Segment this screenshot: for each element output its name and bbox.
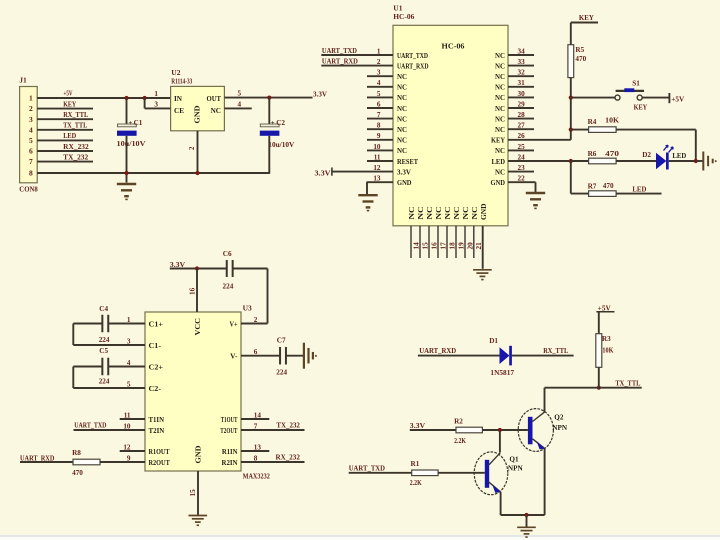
- svg-text:GND: GND: [195, 446, 203, 464]
- ground below Q1 Q2: [517, 527, 536, 538]
- svg-text:NC: NC: [408, 207, 416, 220]
- wire to R7: [571, 193, 589, 195]
- U1 right pin name NC: [495, 105, 505, 113]
- U1 left pin 7 number: [377, 111, 381, 119]
- wire T2OUT pin7 TX_232: [241, 429, 305, 431]
- svg-text:TX_232: TX_232: [63, 153, 88, 161]
- R1 designator: [411, 460, 420, 468]
- wire U1 pin 11 stub: [367, 160, 393, 162]
- U1 right pin 34 number: [518, 47, 526, 55]
- net label UART_RXD at U3: [20, 454, 54, 462]
- U2 pin name GND: [194, 106, 202, 124]
- U1 bottom pin name GND: [480, 204, 488, 221]
- C4 value 224: [99, 336, 110, 344]
- wire U1 pin 31 stub: [508, 86, 534, 88]
- net label LED: [63, 132, 76, 140]
- U1 left pin 3 number: [377, 69, 381, 77]
- D2 value LED: [672, 152, 686, 160]
- U1 right pin 27 number: [518, 122, 526, 130]
- U1 right pin 29 number: [518, 100, 526, 108]
- svg-text:KEY: KEY: [491, 137, 506, 145]
- wire U1 bottom pin 14 stub: [410, 226, 412, 258]
- svg-text:+5V: +5V: [671, 96, 684, 104]
- wire C2+ left b: [109, 366, 145, 368]
- U1 right pin name NC: [495, 147, 505, 155]
- C7 value 224: [276, 368, 287, 376]
- U2 pin name OUT: [207, 95, 222, 103]
- wire R2OUT to R8: [20, 461, 73, 463]
- svg-text:18: 18: [448, 242, 456, 250]
- resistor R5: [568, 45, 574, 78]
- svg-text:+: +: [271, 119, 275, 127]
- R1 value 2.2K: [410, 479, 422, 487]
- U1 right pin 28 number: [518, 111, 526, 119]
- svg-text:TX_TTL: TX_TTL: [63, 122, 87, 130]
- svg-text:NC: NC: [417, 207, 425, 220]
- U3 left pin 3 number: [127, 337, 131, 345]
- svg-text:NC: NC: [471, 207, 479, 220]
- S1 designator: [632, 79, 640, 87]
- wire stub J1 pin 2: [37, 108, 93, 110]
- U2 pin 4 number: [238, 101, 242, 109]
- J1 pin 6 number: [29, 147, 33, 156]
- voltage regulator U2 body: [171, 86, 225, 130]
- net label RX_TTL: [63, 111, 88, 119]
- svg-text:R3: R3: [602, 335, 611, 343]
- wire C1+ left b: [109, 323, 145, 325]
- wire R7 to LED label: [616, 193, 661, 195]
- svg-text:C4: C4: [99, 305, 108, 313]
- svg-text:2.2K: 2.2K: [454, 437, 466, 445]
- U1 right pin name NC: [495, 62, 505, 70]
- svg-text:NC: NC: [397, 73, 407, 81]
- wire key node to R4: [571, 129, 589, 131]
- C2 value 10u/10V: [268, 141, 295, 149]
- U1 bottom pin 21 number: [475, 242, 483, 250]
- wire Q2 emitter vertical: [544, 449, 546, 515]
- U3 left pin name T1IN: [149, 416, 165, 424]
- J1 designator: [19, 76, 27, 85]
- wire U2 pin3 stub: [145, 107, 171, 109]
- svg-text:3: 3: [29, 115, 33, 124]
- svg-text:NC: NC: [462, 207, 470, 220]
- svg-text:19: 19: [457, 242, 465, 250]
- C4 designator: [99, 305, 108, 313]
- wire S1 to power: [642, 97, 669, 99]
- wire U1 bottom GND pin: [482, 226, 484, 269]
- svg-text:3.3V: 3.3V: [410, 421, 426, 430]
- svg-text:16: 16: [430, 242, 438, 250]
- wire U1 bottom pin 21 stub: [473, 226, 475, 258]
- svg-text:NC: NC: [453, 207, 461, 220]
- U1 bottom pin name NC 16: [426, 207, 434, 220]
- wire U2 OUT 3.3V rail: [224, 97, 312, 99]
- capacitor C1 plates: [117, 124, 137, 136]
- Q1 designator: [509, 456, 519, 464]
- svg-text:HC-06: HC-06: [393, 13, 414, 21]
- R4 designator: [588, 118, 597, 126]
- svg-text:NC: NC: [495, 147, 505, 155]
- wire U2 GND lead: [197, 131, 199, 173]
- svg-text:C2-: C2-: [149, 385, 162, 393]
- D1 designator: [489, 337, 498, 345]
- svg-text:C1+: C1+: [149, 320, 164, 328]
- U2 pin 3 number: [154, 101, 158, 109]
- svg-text:C1: C1: [134, 119, 143, 127]
- U1 right pin name NC: [495, 126, 505, 134]
- svg-text:470: 470: [605, 150, 619, 158]
- U3 left pin name C1+: [149, 320, 164, 328]
- Q2 designator: [554, 413, 564, 421]
- U1 bottom pin 19 number: [457, 242, 465, 250]
- svg-text:GND: GND: [397, 179, 412, 187]
- svg-text:TX_232: TX_232: [276, 422, 300, 430]
- wire C4 loop vertical: [72, 324, 74, 346]
- U3 left pin name T2IN: [149, 427, 166, 435]
- svg-text:R1: R1: [411, 460, 420, 468]
- svg-text:LED: LED: [672, 152, 686, 160]
- wire Q1 emitter vertical: [500, 492, 502, 515]
- U1 left pin name NC: [397, 126, 407, 134]
- wire C5 loop vertical: [72, 367, 74, 389]
- resistor R1: [412, 470, 438, 476]
- wire U2 CE branch vertical: [144, 98, 146, 108]
- svg-text:KEY: KEY: [63, 100, 77, 108]
- svg-text:+: +: [128, 119, 132, 127]
- svg-text:CON8: CON8: [19, 185, 38, 194]
- connector J1 CON8: [20, 87, 38, 183]
- svg-text:U2: U2: [171, 68, 180, 77]
- resistor R8: [73, 459, 100, 465]
- U1 bottom pin name NC 20: [462, 207, 470, 220]
- U1 left pin 9 number: [377, 132, 381, 140]
- U1 right pin 22 number: [518, 175, 526, 183]
- resistor R3: [596, 334, 602, 368]
- U1 right pin 33 number: [518, 58, 526, 66]
- wire U1 bottom pin 16 stub: [428, 226, 430, 258]
- junction U2 input node: [143, 96, 147, 100]
- svg-text:S1: S1: [632, 79, 640, 87]
- junction 3.3V at C2: [267, 96, 271, 100]
- net label LED at R7: [632, 184, 647, 193]
- wire U1 pin1 UART_TXD: [321, 54, 393, 56]
- wire stub J1 pin 5: [37, 139, 93, 141]
- svg-text:D1: D1: [489, 337, 498, 345]
- wire stub J1 pin 7: [37, 161, 93, 163]
- svg-text:V-: V-: [230, 353, 238, 361]
- svg-text:1: 1: [29, 94, 33, 103]
- svg-text:C5: C5: [99, 347, 108, 355]
- C7 designator: [277, 337, 286, 345]
- U1 left pin name NC: [397, 105, 407, 113]
- svg-text:T1IN: T1IN: [149, 416, 165, 424]
- U2 pin name NC: [211, 107, 221, 115]
- svg-text:NC: NC: [495, 52, 505, 60]
- svg-text:15: 15: [421, 242, 429, 250]
- U3 left pin 1 number: [127, 316, 131, 324]
- ground below U3: [189, 516, 208, 527]
- svg-text:17: 17: [439, 242, 447, 250]
- U2 pin 2 number: [189, 146, 196, 150]
- wire U1 pin 30 stub: [508, 96, 534, 98]
- port bar 3.3V pin12: [331, 168, 333, 176]
- R4 value 10K: [605, 117, 619, 125]
- net label UART_RXD at D1: [419, 347, 456, 355]
- svg-text:NC: NC: [495, 84, 505, 92]
- wire stub J1 pin 3: [37, 118, 93, 120]
- U1 left pin 2 number: [377, 58, 381, 66]
- wire +5V to R3: [598, 312, 600, 334]
- svg-text:C7: C7: [277, 337, 286, 345]
- wire U1 pin 27 stub: [508, 128, 534, 130]
- wire T1IN pin11 stub: [120, 418, 145, 420]
- U2 designator: [171, 68, 180, 77]
- wire U1 pin13 gnd vertical: [366, 182, 368, 194]
- svg-text:NC: NC: [397, 115, 407, 123]
- U1 bottom pin 14 number: [412, 242, 420, 250]
- junction C1 at GND bus: [124, 171, 128, 175]
- svg-text:V+: V+: [230, 320, 238, 328]
- wire U1 pin 8 stub: [367, 128, 393, 130]
- U1 bottom pin 18 number: [448, 242, 456, 250]
- wire R1IN pin13 stub: [241, 450, 269, 452]
- U3 left pin name R1OUT: [149, 448, 170, 456]
- net label RX_232: [63, 143, 89, 151]
- switch S1: [615, 88, 644, 100]
- junction key node R4: [569, 128, 573, 132]
- ground right of D2: [703, 152, 716, 171]
- svg-text:NC: NC: [397, 147, 407, 155]
- svg-text:NC: NC: [426, 207, 434, 220]
- svg-text:LED: LED: [492, 158, 506, 166]
- U3 right pin name R1IN: [222, 448, 238, 456]
- U1 right pin name NC: [495, 73, 505, 81]
- U3 left pin name C2+: [149, 363, 164, 371]
- R7 designator: [588, 182, 597, 190]
- J1 pin 1 number: [29, 94, 33, 103]
- CON8 value: [19, 185, 38, 194]
- ground at U1 pin13: [358, 195, 377, 211]
- U1 bottom pin 15 number: [421, 242, 429, 250]
- U1 right pin 32 number: [518, 69, 526, 77]
- R2 value 2.2K: [454, 437, 466, 445]
- wire C6 to corner: [233, 268, 268, 270]
- net label UART_TXD at U3: [74, 422, 106, 430]
- wire R8 to R2OUT pin9: [100, 461, 145, 463]
- ground at U1 bottom GND pin: [473, 270, 492, 281]
- svg-text:NC: NC: [495, 126, 505, 134]
- C1 plus sign: [128, 119, 132, 127]
- U3 left pin 12 number: [123, 443, 131, 451]
- wire U1 pin 10 stub: [367, 149, 393, 151]
- U1 left pin 12 number: [373, 164, 381, 172]
- svg-text:UART_TXD: UART_TXD: [322, 47, 357, 55]
- wire corner down to V+: [267, 269, 269, 324]
- svg-text:NC: NC: [397, 126, 407, 134]
- svg-text:UART_TXD: UART_TXD: [349, 464, 385, 472]
- D2 designator: [642, 151, 651, 159]
- svg-text:5: 5: [29, 136, 33, 145]
- C5 value 224: [99, 377, 110, 385]
- junction LED node: [569, 159, 573, 163]
- U1 left pin name NC: [397, 73, 407, 81]
- wire C1+ left a: [73, 323, 102, 325]
- svg-text:RX_TTL: RX_TTL: [543, 347, 568, 355]
- wire U1 pin 25 stub: [508, 149, 534, 151]
- U3 left pin 11 number: [124, 411, 131, 419]
- U3 right pin name R2IN: [222, 459, 239, 467]
- transistor Q2: [518, 409, 553, 452]
- svg-text:10K: 10K: [605, 117, 619, 125]
- J1 pin 3 number: [29, 115, 33, 124]
- wire C2+ left a: [73, 366, 102, 368]
- svg-text:UART_RXD: UART_RXD: [419, 347, 456, 355]
- C1 value 10u/10V: [117, 140, 147, 148]
- U3 pin name GND: [195, 446, 203, 464]
- svg-text:KEY: KEY: [634, 103, 648, 112]
- wire UART_RXD to D1: [418, 355, 500, 357]
- net label UART_TXD at U1 pin1: [322, 47, 357, 55]
- U1 left pin 8 number: [377, 122, 381, 130]
- svg-text:15: 15: [189, 489, 197, 497]
- U3 pin 16 number: [189, 287, 197, 295]
- U1 left pin name RESET: [397, 158, 418, 166]
- wire KEY to R5: [570, 23, 572, 45]
- svg-text:NC: NC: [397, 84, 407, 92]
- svg-text:4: 4: [238, 101, 242, 109]
- C2 plus sign: [271, 119, 275, 127]
- svg-text:14: 14: [412, 242, 420, 250]
- U3 right pin name T1OUT: [221, 416, 238, 424]
- wire U1 pin 4 stub: [367, 86, 393, 88]
- U1 bottom pin name NC 21: [471, 207, 479, 220]
- ground below C1: [117, 184, 136, 200]
- U1 left pin 13 number: [373, 175, 381, 183]
- svg-text:R5: R5: [575, 46, 584, 54]
- svg-text:10K: 10K: [602, 346, 613, 354]
- svg-text:LED: LED: [632, 184, 647, 193]
- U1 left pin name NC: [397, 84, 407, 92]
- U1 left pin name UART_RXD: [397, 62, 429, 70]
- wire T2IN pin10 UART_TXD: [74, 429, 146, 431]
- svg-text:RX_232: RX_232: [276, 454, 301, 462]
- wire C7 to ground: [287, 355, 304, 357]
- svg-text:NC: NC: [495, 115, 505, 123]
- wire UART_TXD to R1: [349, 472, 412, 474]
- R2 designator: [454, 417, 463, 425]
- svg-text:224: 224: [223, 283, 234, 291]
- wire U1 pin 28 stub: [508, 118, 534, 120]
- svg-text:GND: GND: [480, 204, 488, 221]
- wire U1 pin 6 stub: [367, 107, 393, 109]
- svg-text:R4: R4: [588, 118, 597, 126]
- U1 bottom pin name NC 18: [444, 207, 452, 220]
- svg-text:Q2: Q2: [554, 413, 564, 421]
- bluetooth module U1 body: [393, 25, 508, 226]
- svg-text:UART_RXD: UART_RXD: [322, 58, 358, 66]
- wire U1 pin 3 stub: [367, 75, 393, 77]
- svg-text:TX_TTL: TX_TTL: [615, 379, 640, 387]
- wire led node down to R7: [570, 161, 572, 194]
- svg-text:KEY: KEY: [579, 13, 595, 22]
- svg-text:224: 224: [276, 368, 287, 376]
- U3 pin 15 number: [189, 489, 197, 497]
- wire R5 to key node: [570, 78, 572, 140]
- wire 3.3V to C6: [170, 268, 226, 270]
- U1 right pin 26 number: [518, 132, 526, 140]
- U3 right pin name T2OUT: [220, 427, 237, 435]
- J1 pin 4 number: [29, 125, 33, 134]
- U3 left pin name C2-: [149, 385, 162, 393]
- diode D2 LED: [656, 145, 673, 169]
- wire V- pin6 stub: [241, 355, 280, 357]
- wire U1 pin12 3.3V: [332, 171, 393, 173]
- U1 bottom pin name NC 17: [435, 207, 443, 220]
- svg-text:470: 470: [603, 182, 614, 190]
- U1 right pin 23 number: [518, 164, 526, 172]
- R6 designator: [588, 150, 597, 158]
- wire KEY label stub: [571, 22, 598, 24]
- wire D2 to gnd node: [669, 160, 696, 162]
- U1 value HC-06 above box: [393, 13, 414, 21]
- wire C2- pin5: [73, 387, 145, 389]
- U3 left pin 5 number: [127, 380, 131, 388]
- C6 designator: [223, 250, 232, 258]
- U1 right pin name KEY: [491, 137, 506, 145]
- svg-text:T1OUT: T1OUT: [221, 416, 238, 424]
- junction U2 GND at bus: [195, 171, 199, 175]
- svg-text:10u/10V: 10u/10V: [268, 141, 295, 149]
- U1 designator: [393, 3, 402, 12]
- U2 pin 1 number: [154, 90, 158, 98]
- svg-text:NC: NC: [495, 73, 505, 81]
- U1 left pin name NC: [397, 115, 407, 123]
- svg-text:CE: CE: [174, 107, 184, 115]
- svg-text:R2: R2: [454, 417, 463, 425]
- power port bar +5V right of S1: [668, 93, 670, 103]
- U1 left pin name 3.3V: [397, 168, 412, 176]
- wire TX_TTL horizontal: [545, 387, 642, 389]
- svg-text:RX_TTL: RX_TTL: [63, 111, 88, 119]
- U1 bottom pin 20 number: [466, 242, 474, 250]
- junction Q1 collector node: [498, 428, 502, 432]
- U1 right pin name GND: [491, 179, 506, 187]
- U1 left pin 11 number: [374, 153, 381, 161]
- svg-text:16: 16: [189, 287, 197, 295]
- net label 3.3V at R2: [410, 421, 426, 430]
- net label KEY: [63, 100, 77, 108]
- svg-text:6: 6: [29, 147, 33, 156]
- resistor R6: [589, 158, 617, 164]
- U3 left pin 4 number: [127, 359, 131, 367]
- svg-text:3.3V: 3.3V: [397, 168, 412, 176]
- R5 designator: [575, 46, 584, 54]
- U1 right pin name NC: [495, 168, 505, 176]
- svg-text:2: 2: [29, 104, 33, 113]
- ground at U1 pin22: [526, 193, 545, 209]
- svg-text:2.2K: 2.2K: [410, 479, 422, 487]
- svg-text:NC: NC: [397, 105, 407, 113]
- net label KEY below S1: [634, 103, 648, 112]
- U1 title HC-06 inside: [442, 41, 465, 50]
- wire stub J1 pin 6: [37, 150, 93, 152]
- net label TX_232: [276, 422, 300, 430]
- R3 value 10K: [602, 346, 613, 354]
- capacitor C5: [102, 358, 108, 376]
- R8 value 470: [72, 469, 83, 477]
- svg-text:T2OUT: T2OUT: [220, 427, 237, 435]
- net label UART_TXD at R1: [349, 464, 385, 472]
